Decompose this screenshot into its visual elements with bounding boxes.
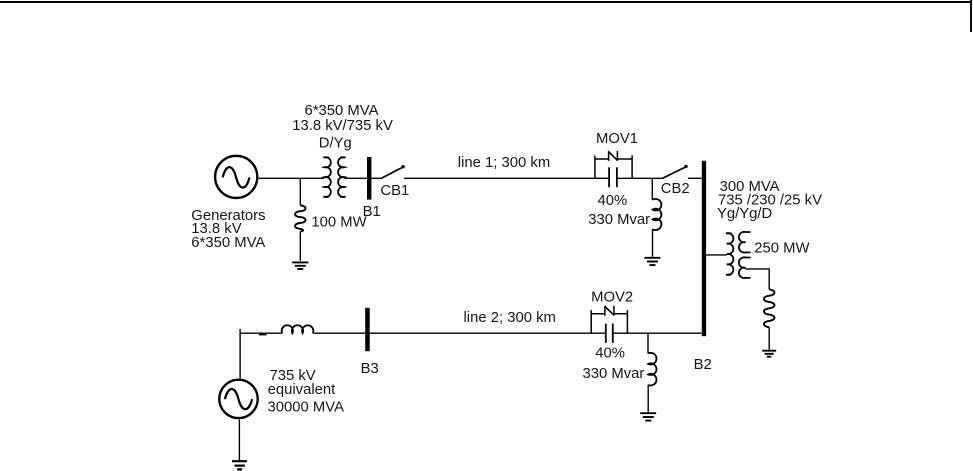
svg-text:MOV1: MOV1 [596,131,638,147]
svg-text:250 MW: 250 MW [754,240,809,256]
svg-text:equivalent: equivalent [268,382,337,398]
svg-text:CB1: CB1 [380,183,409,199]
svg-text:CB2: CB2 [661,181,690,197]
svg-text:6*350 MVA: 6*350 MVA [191,235,265,251]
svg-text:B2: B2 [694,357,712,373]
svg-text:30000 MVA: 30000 MVA [268,399,345,415]
svg-text:B3: B3 [361,361,379,377]
svg-text:330 Mvar: 330 Mvar [588,212,650,228]
svg-text:6*350 MVA: 6*350 MVA [305,103,379,119]
svg-text:D/Yg: D/Yg [319,135,352,151]
svg-text:line 2; 300 km: line 2; 300 km [464,310,556,326]
svg-text:B1: B1 [363,204,381,220]
svg-text:line 1; 300 km: line 1; 300 km [458,155,550,171]
svg-text:MOV2: MOV2 [591,290,633,306]
svg-text:13.8 kV/735 kV: 13.8 kV/735 kV [292,118,393,134]
svg-text:40%: 40% [595,346,625,362]
svg-text:330 Mvar: 330 Mvar [583,366,645,382]
svg-text:Yg/Yg/D: Yg/Yg/D [717,206,773,222]
svg-text:40%: 40% [598,193,628,209]
svg-text:100 MW: 100 MW [311,215,366,231]
